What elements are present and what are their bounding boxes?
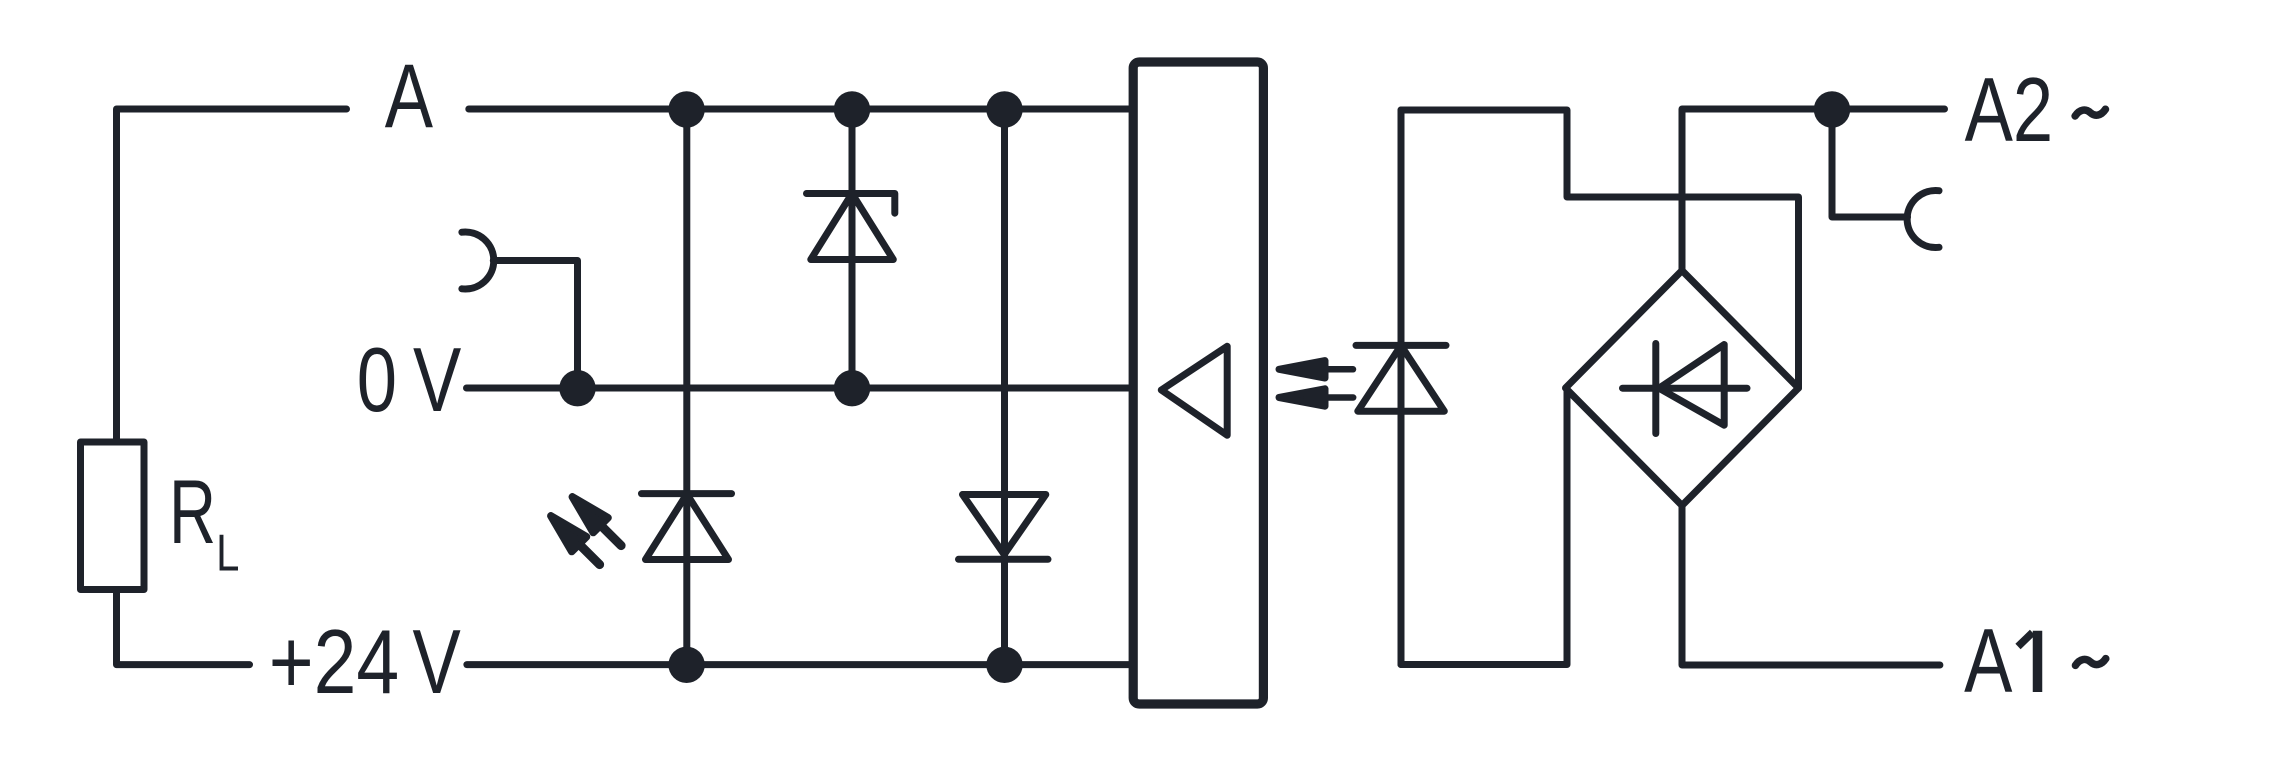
svg-text:A: A <box>1964 611 2013 711</box>
svg-text:A2: A2 <box>1965 60 2054 160</box>
svg-text:V: V <box>413 330 462 430</box>
svg-text:A: A <box>385 47 434 147</box>
svg-text:R: R <box>169 461 216 562</box>
svg-text:L: L <box>216 524 239 583</box>
svg-text:V: V <box>413 612 462 712</box>
svg-text:0: 0 <box>357 330 397 430</box>
svg-text:+24: +24 <box>269 611 399 712</box>
